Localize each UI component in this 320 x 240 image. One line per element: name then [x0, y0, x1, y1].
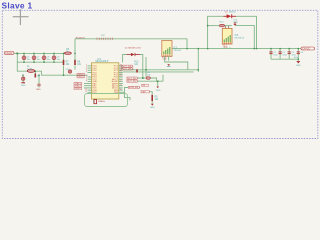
svg-text:GND: GND [156, 90, 161, 92]
capacitor C1 [269, 51, 278, 56]
net label MOT_EN_1 [127, 77, 139, 80]
wire: right caps bottom bus [271, 58, 298, 60]
ground symbol right of IC [156, 87, 161, 92]
IC1 left pin numbers [85, 65, 88, 94]
wire: gnd stub right of IC [157, 81, 159, 86]
connector CN4 [301, 47, 315, 51]
capacitor C4 [294, 51, 305, 58]
net label SLPR_EN_1 [128, 86, 141, 89]
svg-text:16MHz: 16MHz [98, 101, 105, 103]
wire: mot en lower line [137, 80, 163, 82]
junction dots [16, 25, 299, 82]
svg-text:D1 BZX49-C5V1: D1 BZX49-C5V1 [125, 47, 142, 49]
wire: cap C9 stem [53, 53, 55, 62]
inductor L1 (series oval) [27, 66, 35, 72]
wire: riser to bus from x187 [186, 39, 188, 49]
capacitor C7 [32, 56, 41, 61]
wire: mot line A [123, 69, 199, 71]
wire: left power bus top [14, 52, 64, 54]
wire: mot en lead [137, 77, 146, 79]
resistor R14 (series oval) [219, 22, 224, 27]
resistor R6 (series oval) [65, 49, 71, 55]
IC1 left pin names [92, 66, 97, 94]
ground below C5 [21, 80, 26, 87]
IC1 left pin stubs [84, 66, 92, 92]
capacitor C2 [279, 51, 288, 56]
wire: top +5V bus [75, 38, 187, 40]
wire: diode D2 loop top left [208, 16, 224, 48]
svg-text:GND: GND [223, 47, 228, 49]
jumper JP2 inline on bus [97, 35, 112, 40]
wire: cap C8 stem [43, 53, 45, 62]
svg-text:GND: GND [36, 89, 41, 91]
wire: cap label link [149, 92, 152, 95]
wire: R9 stub [34, 71, 36, 73]
IC1 right pin stubs [119, 66, 123, 90]
svg-text:Slave 1: Slave 1 [2, 1, 33, 11]
sheet dashed border [2, 10, 318, 138]
svg-text:10uH: 10uH [27, 68, 32, 70]
svg-text:CN-I2C: CN-I2C [302, 48, 310, 51]
wire: right gnd drop [297, 59, 299, 61]
diode D2 [223, 11, 236, 18]
ground below R5 [150, 104, 155, 109]
resistor R4 (series oval) [146, 72, 151, 79]
wire: cap C6 stem [23, 53, 25, 62]
svg-text:CN-9V: CN-9V [5, 52, 13, 55]
net label MOT_DIR_1 [122, 65, 135, 68]
wire: riser x198 [197, 49, 199, 72]
svg-text:SB160: SB160 [229, 11, 236, 13]
wire: IC bottom pin down [93, 99, 95, 104]
wire: slpr label link [125, 88, 131, 101]
resistor R8 [74, 60, 82, 66]
svg-text:CAP: CAP [142, 91, 147, 94]
capacitor C10 small [66, 69, 72, 73]
capacitor C8 [42, 56, 51, 61]
resistor R9 small [35, 74, 41, 78]
wire: led branch [22, 75, 24, 77]
capacitor C5 polarized [22, 77, 25, 80]
svg-text:GND: GND [163, 59, 168, 61]
IC1 right pin numbers [120, 65, 123, 91]
wire: R4 branch vertical [145, 57, 147, 77]
wire: caps bottom bus [17, 61, 63, 63]
svg-text:ROBO5V: ROBO5V [76, 37, 86, 39]
wire: +5V vertical riser [74, 39, 76, 60]
capacitor C11 polarized [36, 84, 41, 91]
wire: right cap stems [270, 49, 272, 60]
net label rows left of IC [77, 73, 85, 78]
net label CAP [141, 90, 149, 93]
wire: mot en right [150, 78, 156, 81]
wire: U3 top pins [225, 26, 227, 29]
diode D1 [125, 47, 142, 56]
wire: diode D2 loop top right [236, 16, 257, 48]
cursor crosshair [13, 9, 29, 25]
wire: vreg left pin link [165, 59, 188, 70]
net label rows lower left of IC [74, 82, 82, 90]
svg-text:GND: GND [296, 65, 301, 67]
svg-text:MOT_DIR_2: MOT_DIR_2 [122, 69, 134, 71]
svg-text:GND: GND [21, 85, 26, 87]
svg-text:MOT_EN_2: MOT_EN_2 [127, 81, 138, 83]
IC1 body [92, 63, 119, 99]
regulator IC2 body [162, 41, 182, 61]
ground right caps [296, 62, 301, 67]
capacitor C6 [22, 56, 31, 61]
wire: IC right pin stub row [119, 91, 125, 93]
wire: R5 bottom to gnd [151, 101, 153, 104]
net label MOT_DIR_2 [122, 68, 135, 71]
wire: R7 branch vertical [63, 53, 65, 60]
ground below IC2 [167, 64, 171, 66]
wire: R8 bottom stub [74, 65, 76, 69]
capacitor C9 [52, 56, 61, 61]
IC1 right pin names [112, 66, 119, 94]
wire: cap C7 stem [33, 53, 35, 62]
capacitor C13 (vertical) [233, 20, 238, 26]
capacitor C3 [288, 51, 297, 56]
svg-text:GND: GND [150, 107, 155, 109]
svg-text:78L05Z: 78L05Z [174, 50, 182, 52]
svg-text:CN1-3: CN1-3 [78, 77, 85, 79]
resistor R7 [63, 60, 70, 66]
regulator IC3 body [222, 26, 245, 48]
net label RX [142, 84, 149, 87]
net label MOT_EN_2 [127, 80, 139, 83]
svg-text:MEGA328-P: MEGA328-P [96, 60, 109, 63]
connector CN1 power input [4, 52, 14, 55]
resistor R5 [151, 95, 159, 101]
wire: R7 bottom to node [63, 65, 65, 75]
wire: RC row upper right [208, 25, 220, 27]
svg-text:MC78L05: MC78L05 [235, 38, 245, 40]
wire: left input down [17, 53, 27, 71]
wire: diode D1 right leg [140, 55, 143, 79]
wire: fuse to corner [35, 71, 88, 75]
resistor R13 [134, 62, 139, 73]
svg-text:CN3-3: CN3-3 [75, 88, 82, 90]
wire: U3 bottom pins [223, 47, 225, 48]
wire: branch up x163 [162, 75, 164, 81]
wire: vreg right bus 5V [172, 48, 301, 50]
svg-text:SLPR_EN_1: SLPR_EN_1 [129, 87, 141, 89]
crystal group box [85, 94, 128, 107]
wire: cap branch lower [38, 75, 40, 84]
crystal Q1 [94, 99, 105, 104]
wire: mot line B [123, 71, 194, 73]
svg-text:MOT_EN_1: MOT_EN_1 [127, 78, 138, 80]
wire: diode D1 left leg [123, 55, 127, 63]
